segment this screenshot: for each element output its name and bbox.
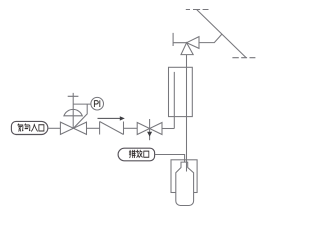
vent diagonal line: [197, 10, 247, 58]
pipe end into bottle: [186, 160, 188, 172]
wire valve V1 to gauge PI (sensing line): [73, 104, 87, 128]
strainer Z1 (slope symbol): [100, 122, 124, 135]
valve V2 stem: [149, 119, 151, 140]
gauge PI circle: [91, 97, 104, 110]
valve V1 diaphragm actuator dome: [64, 109, 82, 115]
wire stem to gauge PI: [73, 103, 91, 105]
valve V2 needle valve body: [137, 123, 162, 135]
node inlet label 氮气入口: [11, 121, 47, 134]
node outlet label 排放口: [118, 148, 155, 161]
relief valve RV1 lever: [173, 33, 187, 46]
flow arrow above strainer: [98, 116, 125, 120]
relief valve RV1 horizontal outlet triangle: [187, 37, 199, 49]
dip tube into column: [173, 72, 175, 129]
wire valve V1 to strainer Z1: [87, 127, 100, 129]
column T1 (filter housing): [169, 67, 193, 116]
valve V1 handle T-bar: [68, 93, 79, 96]
wire valve V2 to dip tube: [162, 128, 174, 130]
wire outlet label to drain pipe: [155, 155, 185, 163]
vessel bottle B1: [176, 162, 194, 205]
text PI: [94, 100, 99, 107]
vessel holder rectangle: [171, 160, 197, 193]
vent boundary dashes bottom: [232, 57, 255, 59]
text 氮气入口 (drawn glyphs): [17, 124, 43, 132]
relief valve RV1 vertical inlet triangle: [181, 43, 193, 55]
valve V1 pressure reducing valve body: [60, 122, 86, 134]
wire strainer to valve V2: [124, 127, 138, 129]
wire relief outlet: [199, 34, 222, 43]
vent boundary dashes top: [186, 9, 209, 11]
valve V2 plug (filled triangle): [147, 132, 152, 137]
text 排放口 (drawn glyphs): [129, 150, 149, 158]
valve V1 stem: [72, 96, 74, 128]
wire inlet to valve V1: [48, 127, 61, 129]
main vertical pipe: [186, 55, 188, 172]
